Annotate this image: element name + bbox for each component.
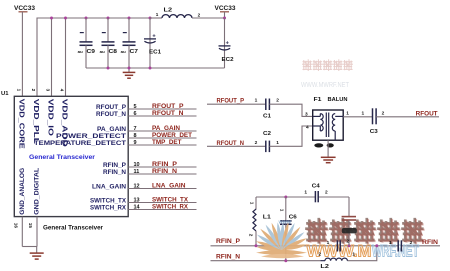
ground below balun (321, 157, 336, 162)
svg-text:11: 11 (134, 169, 140, 175)
balun primary winding (313, 114, 324, 131)
wire RFIN top rail (256, 197, 349, 216)
svg-text:RFOUT_P: RFOUT_P (217, 98, 245, 105)
svg-text:12: 12 (134, 183, 140, 189)
electrolytic capacitor EC1 (144, 18, 162, 68)
svg-text:General Transceiver: General Transceiver (29, 154, 96, 161)
svg-text:RFOUT_P: RFOUT_P (152, 103, 184, 110)
junction dot top of C6 (284, 196, 287, 199)
svg-text:RFIN_N: RFIN_N (103, 169, 126, 176)
svg-text:2: 2 (198, 13, 201, 18)
svg-text:15: 15 (28, 223, 33, 229)
svg-text:C7: C7 (130, 49, 139, 55)
svg-text:SWITCH_RX: SWITCH_RX (152, 204, 189, 211)
wire RFIN_P (211, 245, 441, 247)
svg-text:14: 14 (134, 204, 141, 210)
svg-text:1: 1 (276, 140, 279, 146)
wire joining ground pins (22, 246, 37, 248)
svg-text:VCC33: VCC33 (215, 5, 236, 12)
svg-text:WWW.MWRF.NET: WWW.MWRF.NET (301, 82, 350, 89)
svg-text:GND_DIGITAL: GND_DIGITAL (34, 168, 41, 215)
svg-text:EC1: EC1 (149, 49, 162, 55)
svg-text:RFIN: RFIN (422, 239, 438, 246)
balun secondary winding (332, 114, 343, 141)
capacitor C9 bypass (78, 18, 96, 68)
svg-text:3: 3 (46, 89, 51, 92)
wire U1 pin 15 to ground (36, 217, 38, 247)
junction dots on bottom rail (107, 67, 152, 70)
svg-text:PA_GAIN: PA_GAIN (97, 126, 126, 133)
svg-text:LNA_GAIN: LNA_GAIN (92, 184, 126, 191)
capacitor C6 shunt (279, 197, 297, 261)
svg-text:POWER_DET: POWER_DET (152, 132, 192, 139)
wire bottom rail of bypass bank (86, 67, 225, 69)
svg-text:1: 1 (255, 98, 258, 104)
wire C3 to RFOUT (376, 116, 439, 118)
svg-text:5: 5 (134, 104, 137, 110)
svg-text:C8: C8 (109, 49, 118, 55)
svg-text:4: 4 (306, 125, 309, 131)
watermark fan logo (256, 220, 307, 259)
svg-text:L2: L2 (164, 8, 173, 14)
pin 14 SWITCH_RX wire stub (128, 209, 196, 211)
svg-text:7: 7 (134, 126, 137, 132)
capacitor C8 bypass (100, 18, 118, 68)
capacitor C4 (304, 184, 328, 203)
balun F1 body (313, 97, 348, 140)
svg-text:1: 1 (389, 240, 392, 246)
wire VCC33 right down to EC2 and bottom rail (224, 18, 226, 68)
svg-text:VCC33: VCC33 (14, 5, 35, 12)
svg-text:BALUN: BALUN (328, 97, 348, 103)
pin 6 RFOUT_N wire stub (128, 115, 196, 117)
svg-text:VDD_PLL: VDD_PLL (32, 99, 41, 145)
svg-text:RFOUT_N: RFOUT_N (152, 110, 184, 117)
watermark text WWW.MWRF.NET (307, 242, 420, 261)
svg-text:2: 2 (255, 140, 258, 146)
capacitor C2 (255, 131, 280, 152)
svg-text:1: 1 (304, 189, 307, 195)
svg-text:RFIN_P: RFIN_P (216, 238, 241, 245)
svg-text:9: 9 (134, 140, 137, 146)
svg-text:C2: C2 (263, 131, 271, 137)
svg-text:WWW: WWW (279, 220, 292, 225)
svg-text:1: 1 (362, 110, 365, 116)
svg-text:RFIN_N: RFIN_N (216, 253, 240, 260)
svg-text:VDD_CORE: VDD_CORE (18, 99, 27, 149)
svg-text:L2: L2 (320, 264, 329, 270)
svg-text:2: 2 (325, 189, 328, 195)
svg-text:2: 2 (249, 234, 254, 237)
svg-text:4: 4 (59, 89, 64, 92)
junction dot L2 branch on RFIN_P (375, 244, 378, 247)
inductor L2 (bottom) (318, 251, 355, 269)
wire top rail VDD (37, 18, 150, 96)
svg-text:10: 10 (134, 162, 140, 168)
svg-text:1: 1 (327, 240, 330, 246)
svg-text:F1: F1 (314, 97, 323, 103)
pin numbers 16 15 (bottom) (14, 223, 33, 229)
pin 9 TEMPERATURE_DETECT wire stub (128, 144, 196, 146)
svg-text:EC2: EC2 (222, 57, 234, 63)
capacitor C3 (362, 108, 385, 135)
junction dots on top rail (50, 17, 152, 20)
svg-text:2: 2 (410, 240, 413, 246)
balun pin numbers (305, 111, 349, 131)
watermark text Chinese characters (307, 219, 424, 243)
svg-text:2: 2 (276, 98, 279, 104)
op IC U1 General Transceiver body (14, 96, 128, 216)
wire C1 to balun pin 3 (269, 104, 312, 116)
svg-text:SWITCH_RX: SWITCH_RX (90, 205, 127, 212)
wire L2 to RFIN node (347, 246, 376, 261)
svg-text:LNA_GAIN: LNA_GAIN (152, 183, 186, 190)
svg-text:C4: C4 (312, 184, 321, 190)
svg-text:General Transceiver: General Transceiver (43, 225, 103, 232)
wire RFOUT_P to C1 (207, 103, 266, 105)
svg-text:U1: U1 (1, 91, 9, 97)
svg-text:1: 1 (17, 89, 22, 92)
junction dot C5 on RFIN_P (348, 244, 351, 247)
wire VCC33 down to U1 pin 1 (21, 12, 23, 97)
svg-text:au: au (100, 50, 105, 54)
wire RFOUT_N to C2 (207, 145, 266, 147)
svg-text:POWER_DETECT: POWER_DETECT (56, 133, 126, 140)
pin 11 RFIN_N wire stub (128, 173, 196, 175)
svg-text:1: 1 (352, 251, 355, 257)
capacitor C5 shunt (342, 217, 357, 246)
svg-text:VDD_IO: VDD_IO (47, 99, 56, 137)
junction dot C6 on RFIN_N (284, 259, 287, 262)
ground below U1 (30, 247, 44, 260)
balun ground pins 2 and 5 (314, 140, 334, 157)
svg-text:6: 6 (134, 111, 137, 117)
svg-text:C3: C3 (370, 129, 379, 135)
svg-text:au: au (78, 50, 83, 54)
svg-text:SWITCH_TX: SWITCH_TX (90, 198, 127, 205)
wire U1 pin 4 to rail (65, 18, 67, 96)
inductor L1 (249, 197, 272, 246)
svg-text:2: 2 (346, 239, 349, 245)
svg-text:GND_ANALOG: GND_ANALOG (19, 168, 26, 215)
pin 12 LNA_GAIN wire stub (128, 188, 196, 190)
svg-text:au: au (121, 50, 126, 54)
inductor L2 (top) (150, 8, 225, 18)
power port VCC33 (left) (14, 5, 35, 12)
svg-text:PA_GAIN: PA_GAIN (152, 125, 180, 132)
wire RFIN_N (211, 260, 321, 262)
svg-text:1: 1 (279, 209, 284, 212)
svg-text:2: 2 (31, 89, 36, 92)
svg-text:L1: L1 (263, 215, 272, 221)
svg-text:16: 16 (14, 223, 19, 229)
svg-text:RFOUT: RFOUT (416, 110, 438, 117)
pin 8 POWER_DETECT wire stub (128, 137, 196, 139)
svg-text:RFOUT_N: RFOUT_N (96, 111, 126, 118)
capacitor C7 series (327, 240, 341, 251)
junction dot at VCC33 right (223, 17, 226, 20)
svg-text:C9: C9 (87, 49, 96, 55)
svg-text:13: 13 (134, 197, 140, 203)
pin 7 PA_GAIN wire stub (128, 130, 196, 132)
svg-text:TMP_DET: TMP_DET (152, 139, 182, 146)
svg-text:C1: C1 (263, 114, 272, 120)
svg-text:RFOUT_P: RFOUT_P (96, 104, 126, 111)
pin numbers 1 2 3 4 (top) (17, 89, 65, 92)
wire C2 to balun pin 4 (269, 126, 312, 146)
faint watermark top right (301, 60, 353, 89)
balun core (326, 113, 328, 138)
wire U1 pin 16 to ground (21, 217, 23, 247)
ground below bypass bank (123, 68, 136, 78)
svg-text:3: 3 (305, 111, 308, 117)
capacitor C1 (255, 98, 280, 120)
wire U1 pin 3 to rail (51, 18, 53, 96)
pin 13 SWITCH_TX wire stub (128, 202, 196, 204)
svg-text:8: 8 (134, 133, 137, 139)
svg-text:1: 1 (250, 202, 255, 205)
svg-text:TEMPERATURE_DETECT: TEMPERATURE_DETECT (34, 140, 126, 147)
wire balun pin 1 to C3 (343, 116, 372, 118)
power port VCC33 (right) (215, 5, 236, 18)
svg-text:RFIN_N: RFIN_N (152, 168, 177, 175)
svg-text:2: 2 (382, 110, 385, 116)
svg-text:RFIN_P: RFIN_P (152, 161, 178, 168)
svg-text:1: 1 (156, 12, 159, 17)
capacitor C8 series (389, 240, 413, 251)
svg-text:SWITCH_TX: SWITCH_TX (152, 197, 189, 204)
svg-text:1: 1 (346, 111, 349, 117)
capacitor C7 bypass (121, 18, 138, 68)
pin 10 RFIN_P wire stub (128, 166, 196, 168)
electrolytic capacitor EC2 (219, 40, 234, 63)
junction dot L1 on RFIN_P (255, 244, 258, 247)
svg-text:RFIN_P: RFIN_P (103, 162, 126, 169)
pin 5 RFOUT_P wire stub (128, 108, 196, 110)
svg-text:2: 2 (318, 252, 321, 258)
